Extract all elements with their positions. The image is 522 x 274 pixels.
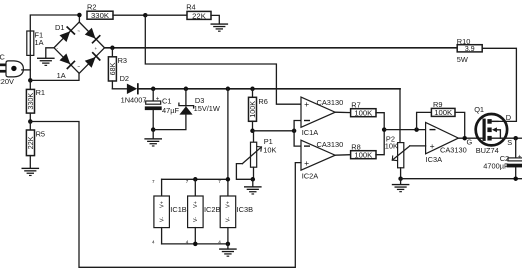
node source/C2 [513, 136, 518, 141]
wire bridge left vertex to ground [46, 48, 54, 58]
svg-text:220V: 220V [0, 77, 14, 86]
bridge diode bottom-left [60, 54, 76, 70]
node D3 top [184, 87, 189, 92]
svg-text:5W: 5W [457, 55, 468, 64]
bridge diode top-left [60, 27, 76, 43]
IC1B power block [154, 196, 187, 228]
bridge diode top-right [85, 28, 101, 44]
svg-text:R5: R5 [36, 129, 45, 138]
svg-text:7: 7 [186, 179, 189, 184]
svg-text:Q1: Q1 [474, 105, 484, 114]
wire IC1A out to R7 [335, 111, 350, 113]
capacitor C1 [145, 89, 180, 130]
potentiometer P1 [236, 131, 276, 180]
node plug/bridge-bottom junction [28, 78, 33, 83]
resistor R3 [108, 48, 127, 89]
wire V+ drop to IC3B pin7 [227, 89, 229, 196]
wire divider node to IC2A + input (outer loop) [30, 122, 301, 268]
node P2 bottom [398, 176, 403, 181]
node IC2B pin7 [193, 177, 198, 182]
ground (R4) [211, 23, 229, 31]
potentiometer P2 [385, 134, 426, 178]
svg-text:100K: 100K [354, 151, 373, 160]
node R3 tap [110, 46, 115, 51]
svg-text:D: D [506, 113, 511, 122]
ground (R5) [22, 168, 40, 176]
svg-text:S: S [507, 138, 512, 147]
node R1/R5 [28, 119, 33, 124]
op-amp IC1A [301, 97, 343, 137]
wire fuse column: plug node up through F1 to bridge top node [30, 15, 79, 80]
resistor R9 [417, 100, 465, 138]
wire pin4 rail to ground [227, 244, 229, 249]
capacitor C2 [483, 138, 522, 179]
wire R2 to R4 node [113, 14, 145, 16]
svg-text:15V/1W: 15V/1W [194, 104, 220, 113]
wire R8 to sum node [376, 130, 384, 155]
node IC3B pin4 [226, 242, 231, 247]
wire IC2B pin4 stub [194, 228, 196, 244]
svg-text:AC: AC [0, 53, 6, 62]
op-amp IC3A [426, 122, 467, 164]
wire IC1A/IC2A inverting inputs [294, 121, 301, 147]
svg-text:100K: 100K [354, 109, 373, 118]
node R2/R4 [143, 13, 148, 18]
fuse F1 [27, 31, 34, 55]
svg-text:+: + [304, 99, 309, 109]
IC2B power block [188, 196, 221, 228]
resistor R6 [248, 89, 268, 131]
svg-text:IC2A: IC2A [302, 171, 319, 180]
node sum R7/R8 [382, 127, 387, 132]
ground (C1) [144, 138, 162, 146]
wire R2/R4 node down and right to IC1A + input [145, 15, 301, 104]
svg-text:IC3B: IC3B [237, 205, 254, 214]
node R9 tap [414, 127, 419, 132]
svg-text:R6: R6 [258, 97, 267, 106]
svg-text:BUZ74: BUZ74 [476, 146, 499, 155]
wire IC2A out to R8 [335, 154, 350, 157]
svg-text:22K: 22K [192, 11, 207, 20]
wire R10 to Q1 drain [482, 48, 516, 121]
svg-text:7: 7 [218, 179, 221, 184]
svg-text:V-: V- [193, 217, 199, 222]
wire IC1B pin7 stub [161, 179, 163, 196]
wire P2 to ground [400, 179, 402, 184]
wire IC3A out to Q1 gate [458, 137, 482, 139]
wire output 0V rail [401, 178, 522, 180]
svg-text:100K: 100K [434, 108, 453, 117]
supply rail to IC1B/IC2B pins 7 [162, 178, 228, 180]
svg-text:+: + [156, 96, 160, 102]
node inverting join [292, 129, 297, 134]
resistor R7 [351, 100, 376, 117]
node IC2B pin4 [193, 242, 198, 247]
node C2 bottom [513, 176, 518, 181]
svg-text:R3: R3 [118, 56, 127, 65]
wire R4 to ground [211, 15, 219, 23]
svg-text:~: ~ [77, 28, 80, 33]
resistor R4 [186, 3, 211, 21]
node P1 bottom [251, 177, 256, 182]
svg-text:IC1A: IC1A [302, 128, 319, 137]
resistor R5 [26, 122, 45, 168]
wire bottom AC to bridge bottom vertex [30, 73, 79, 80]
node R6 top [250, 87, 255, 92]
svg-text:R1: R1 [36, 88, 45, 97]
svg-text:R4: R4 [186, 3, 195, 12]
bridge polarity marks [57, 28, 98, 69]
wire C1 bottom to ground [152, 130, 154, 139]
svg-text:V+: V+ [193, 201, 199, 208]
svg-text:47µF: 47µF [162, 106, 179, 115]
svg-text:~: ~ [77, 64, 80, 69]
resistor R8 [351, 142, 376, 159]
node R6/P1 [250, 129, 255, 134]
bridge diode bottom-right [85, 52, 101, 67]
wire R7 to sum node [376, 113, 384, 130]
wire IC3B pin4 stub [227, 228, 229, 244]
svg-text:1A: 1A [57, 71, 66, 80]
svg-text:100K: 100K [248, 101, 257, 118]
svg-text:D1: D1 [55, 23, 64, 32]
ground (bridge) [37, 58, 55, 66]
svg-text:IC3A: IC3A [426, 155, 443, 164]
svg-text:22K: 22K [26, 136, 35, 149]
node bridge top / R2 [77, 13, 82, 18]
svg-text:10K: 10K [263, 145, 276, 154]
svg-text:IC2B: IC2B [204, 205, 221, 214]
svg-text:1A: 1A [35, 38, 44, 47]
resistor R10 [457, 37, 482, 64]
svg-text:V-: V- [159, 217, 165, 222]
svg-text:V+: V+ [226, 201, 232, 208]
svg-text:+: + [95, 46, 98, 51]
op-amp IC2A [301, 140, 343, 180]
wire sum node to IC3A inverting input [384, 129, 425, 131]
svg-text:330K: 330K [26, 93, 35, 110]
svg-text:CA3130: CA3130 [317, 140, 344, 149]
svg-text:IC1B: IC1B [170, 205, 187, 214]
svg-text:D2: D2 [120, 74, 129, 83]
node gate/R9 [462, 136, 467, 141]
AC mains plug [0, 61, 23, 77]
wire +15V rail D2 to P2 drop [139, 88, 400, 90]
svg-text:330K: 330K [91, 11, 110, 20]
svg-text:G: G [467, 138, 473, 147]
ground (P2) [392, 184, 410, 192]
node C1 top [151, 87, 156, 92]
svg-text:3.9: 3.9 [465, 44, 475, 53]
resistor R1 [26, 80, 45, 121]
pin 7 labels [152, 179, 221, 184]
svg-text:1N4007: 1N4007 [121, 95, 147, 104]
zener D3 [155, 89, 220, 130]
svg-text:10K: 10K [385, 142, 398, 151]
IC3B power block [220, 196, 253, 228]
ground (P1) [244, 186, 262, 194]
wire P1 to ground [252, 179, 254, 186]
svg-text:V-: V- [226, 217, 232, 222]
svg-text:4700µF: 4700µF [483, 162, 509, 171]
ground rail pins 4 [162, 243, 228, 245]
svg-text:CA3130: CA3130 [440, 146, 467, 155]
wire node to R4 [145, 14, 187, 16]
ground (IC blocks) [219, 248, 237, 256]
pin 4 labels [152, 240, 221, 245]
svg-text:C1: C1 [162, 97, 171, 106]
svg-text:68K: 68K [108, 62, 117, 75]
resistor R2 [87, 3, 113, 21]
wire plug to fuse column [22, 69, 31, 71]
node C1/D3 bottom [151, 127, 156, 132]
svg-text:+: + [430, 141, 435, 151]
wire R6 node to inverting inputs [253, 130, 295, 132]
diode D2 [112, 74, 146, 105]
wire IC2B pin7 stub [194, 179, 196, 196]
bridge rectifier D1 diamond [54, 22, 105, 73]
wire IC1B pin4 stub [161, 228, 163, 244]
wire source node to output [516, 137, 522, 139]
node V+ drop [226, 87, 231, 92]
node IC3B pin7 [226, 177, 231, 182]
svg-text:CA3130: CA3130 [317, 98, 344, 107]
svg-text:+: + [304, 158, 309, 168]
svg-text:V+: V+ [159, 201, 165, 208]
svg-text:+: + [518, 154, 522, 160]
wire bridge top vertex stub [78, 15, 80, 22]
wire main + rail from bridge to R10 [105, 47, 458, 49]
transistor Q1 BUZ74 [467, 105, 516, 155]
svg-text:7: 7 [152, 179, 155, 184]
svg-text:4: 4 [152, 240, 155, 245]
